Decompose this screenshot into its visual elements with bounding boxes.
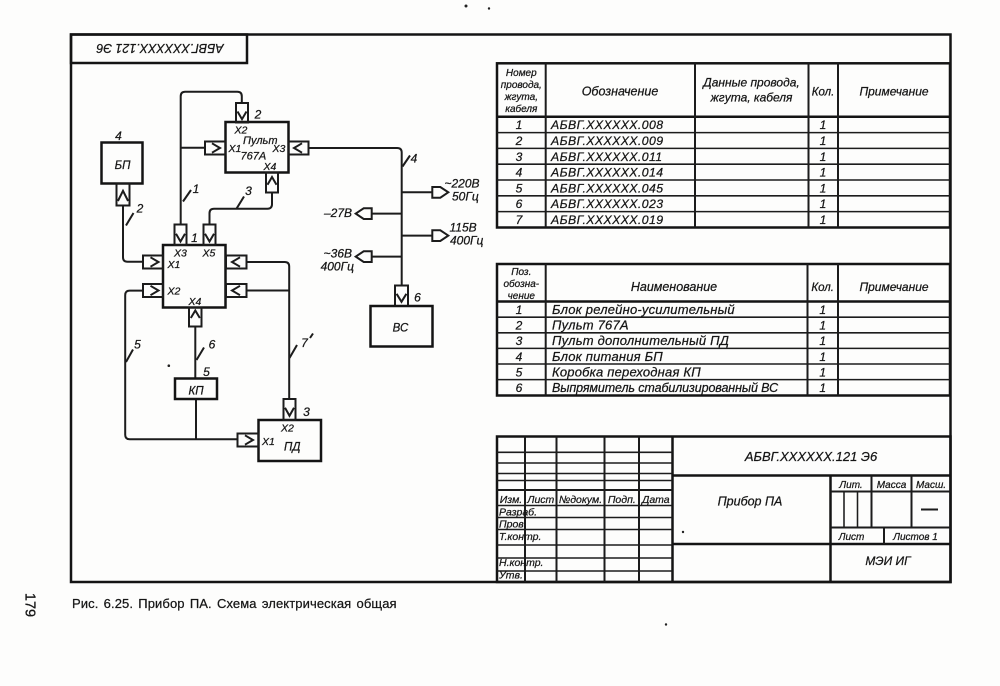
svg-text:6: 6 — [516, 381, 523, 395]
wire table row 4 — [516, 166, 827, 180]
parts table row 4 — [516, 349, 826, 364]
svg-text:4: 4 — [411, 152, 418, 166]
wire label 1 — [183, 182, 199, 202]
svg-text:5: 5 — [134, 338, 141, 352]
svg-text:Т.контр.: Т.контр. — [499, 531, 541, 543]
wire label 3 — [237, 184, 253, 209]
parts table (Поз. обозначение) — [497, 264, 950, 396]
wire from КП to wire 5 — [195, 399, 197, 439]
svg-text:Разраб.: Разраб. — [499, 507, 537, 519]
wire table (Номер провода) — [497, 63, 950, 227]
svg-text:Утв.: Утв. — [498, 570, 523, 582]
svg-text:X4: X4 — [263, 161, 277, 173]
svg-text:400Гц: 400Гц — [321, 260, 355, 274]
svg-text:Коробка переходная КП: Коробка переходная КП — [552, 364, 701, 379]
connector X2 of ПД — [284, 399, 296, 420]
svg-text:1: 1 — [819, 303, 826, 317]
svg-text:3: 3 — [516, 150, 523, 164]
svg-text:Рис. 6.25. Прибор ПА. Схема эл: Рис. 6.25. Прибор ПА. Схема электрическа… — [72, 596, 397, 611]
external arrow ~36В 400Гц — [321, 247, 372, 274]
svg-text:4: 4 — [516, 166, 523, 180]
svg-text:Кол.: Кол. — [812, 87, 835, 99]
connector X2 of Пульт — [236, 103, 248, 123]
svg-text:115В: 115В — [450, 221, 477, 235]
drawing frame — [71, 35, 951, 583]
title block left grid columns — [525, 437, 673, 583]
svg-text:179: 179 — [22, 593, 38, 617]
parts table row 3 — [516, 333, 826, 348]
connector X1 of Пульт — [205, 142, 226, 155]
svg-text:АБВГ.XXXXXX.009: АБВГ.XXXXXX.009 — [550, 134, 663, 148]
wire label 4 — [403, 152, 418, 167]
svg-text:Масш.: Масш. — [916, 480, 946, 491]
svg-text:Пров.: Пров. — [499, 519, 527, 531]
connector X3 of central block — [175, 225, 187, 246]
svg-text:50Гц: 50Гц — [452, 190, 479, 204]
svg-text:1: 1 — [819, 365, 826, 379]
svg-text:Кол.: Кол. — [811, 282, 834, 294]
svg-text:5: 5 — [516, 181, 523, 195]
svg-text:Пульт 767А: Пульт 767А — [552, 318, 629, 333]
svg-text:Лит.: Лит. — [838, 480, 862, 491]
svg-text:X1: X1 — [167, 259, 181, 271]
connector X4 of central block — [189, 308, 202, 327]
tap wire to 115V — [402, 235, 433, 237]
svg-text:6: 6 — [209, 338, 216, 352]
svg-text:жгута,: жгута, — [504, 92, 538, 103]
svg-text:–27В: –27В — [323, 206, 352, 220]
svg-text:АБВГ.XXXXXX.023: АБВГ.XXXXXX.023 — [550, 197, 663, 211]
wire Пульт X1 to wire 1 — [181, 147, 205, 149]
svg-text:жгута, кабеля: жгута, кабеля — [710, 91, 794, 105]
wire label 2 — [126, 202, 144, 226]
block relay-amplifier unit (pos 1) — [163, 245, 226, 308]
wire table row 2 — [515, 134, 827, 148]
svg-text:3: 3 — [303, 405, 310, 419]
connector X3 of Пульт — [289, 142, 309, 155]
svg-text:АБВГ.XXXXXX.121 Э6: АБВГ.XXXXXX.121 Э6 — [96, 41, 224, 55]
svg-text:Масса: Масса — [877, 480, 907, 491]
right connector 2 of central block — [226, 284, 247, 297]
svg-text:X4: X4 — [188, 296, 202, 308]
connector X4 of Пульт — [266, 173, 278, 193]
svg-text:1: 1 — [819, 350, 826, 364]
wire 6 (X4 to КП) — [194, 327, 196, 379]
svg-text:АБВГ.XXXXXX.008: АБВГ.XXXXXX.008 — [550, 118, 663, 132]
svg-text:Номер: Номер — [506, 68, 537, 79]
svg-text:2: 2 — [515, 134, 523, 148]
svg-text:1: 1 — [191, 231, 198, 245]
right connector 1 of central block — [226, 256, 247, 269]
svg-text:№докум.: №докум. — [559, 494, 602, 506]
block ВС (pos 6) — [371, 306, 433, 347]
connector under БП — [117, 184, 130, 206]
svg-text:Подп.: Подп. — [608, 494, 636, 506]
parts table row 5 — [516, 364, 826, 379]
wire label 7 — [290, 334, 314, 359]
svg-text:1: 1 — [820, 166, 827, 180]
svg-text:Наименование: Наименование — [631, 280, 717, 294]
wire table row 7 — [516, 213, 827, 227]
document code box (rotated 180) — [71, 35, 247, 64]
svg-text:АБВГ.XXXXXX.011: АБВГ.XXXXXX.011 — [550, 150, 663, 164]
tap wire to ~36V — [372, 256, 402, 258]
svg-text:3: 3 — [516, 334, 523, 348]
title block name cell (Прибор ПА) — [673, 476, 951, 583]
title block signature labels — [498, 507, 543, 582]
svg-text:Лист: Лист — [838, 532, 865, 543]
external arrow -27В — [323, 206, 372, 220]
svg-text:6: 6 — [414, 291, 421, 305]
svg-text:5: 5 — [516, 365, 523, 379]
svg-text:1: 1 — [193, 182, 200, 196]
svg-text:X3: X3 — [272, 143, 286, 155]
block КП (pos 5) — [175, 379, 217, 400]
svg-text:ПД: ПД — [284, 442, 300, 454]
connector X2 of central block — [143, 284, 163, 297]
scan speck top 1 — [465, 5, 468, 8]
svg-text:3: 3 — [245, 184, 252, 198]
svg-text:400Гц: 400Гц — [450, 234, 484, 248]
svg-text:1: 1 — [516, 118, 523, 132]
wire table row 3 — [516, 150, 827, 164]
block ПД (pos 3) — [259, 420, 322, 461]
svg-text:ВС: ВС — [393, 323, 409, 335]
svg-text:АБВГ.XXXXXX.045: АБВГ.XXXXXX.045 — [550, 181, 663, 195]
svg-text:БП: БП — [115, 160, 131, 172]
svg-text:Листов 1: Листов 1 — [892, 532, 938, 543]
connector X1 of central block — [143, 256, 163, 269]
wire 1 (Пульт X2 loop to central X3) — [181, 92, 242, 225]
title block document code cell — [673, 449, 951, 476]
svg-text:Лист: Лист — [526, 494, 554, 506]
svg-text:Выпрямитель стабилизированный: Выпрямитель стабилизированный ВС — [552, 381, 779, 395]
svg-text:Обозначение: Обозначение — [582, 85, 659, 99]
svg-text:Дата: Дата — [641, 494, 670, 506]
svg-text:1: 1 — [516, 303, 523, 317]
svg-text:X3: X3 — [173, 248, 187, 260]
external arrow 115В 400Гц — [432, 221, 483, 248]
svg-text:6: 6 — [516, 197, 523, 211]
parts table row 6 — [516, 381, 826, 395]
scan speck in title block — [682, 531, 684, 533]
svg-text:5: 5 — [203, 365, 210, 379]
wire 2 — [123, 206, 143, 262]
svg-text:Изм.: Изм. — [500, 494, 522, 506]
svg-text:Блок релейно-усилительный: Блок релейно-усилительный — [552, 302, 735, 317]
svg-text:767А: 767А — [241, 151, 267, 163]
svg-text:4: 4 — [115, 129, 122, 143]
tap wire to -27V — [372, 213, 402, 215]
svg-text:Н.контр.: Н.контр. — [499, 557, 543, 569]
svg-text:1: 1 — [820, 150, 827, 164]
title block Лист / Листов row — [838, 528, 938, 545]
wire 5 (central X2 to ПД X1) — [125, 291, 237, 440]
title block header row labels — [500, 494, 670, 506]
svg-text:чение: чение — [508, 291, 536, 302]
wire table row 6 — [516, 197, 827, 211]
svg-text:1: 1 — [820, 197, 827, 211]
block Пульт 767А (pos 2) — [226, 122, 289, 173]
svg-text:МЭИ ИГ: МЭИ ИГ — [865, 554, 912, 568]
svg-text:Поз.: Поз. — [511, 267, 531, 278]
svg-text:7: 7 — [516, 213, 524, 227]
wire label 6 — [197, 338, 216, 361]
svg-text:1: 1 — [820, 118, 827, 132]
parts table row 1 — [516, 302, 826, 317]
connector X5 of central block — [204, 225, 216, 246]
svg-text:провода,: провода, — [501, 80, 542, 91]
svg-text:Пульт дополнительный ПД: Пульт дополнительный ПД — [552, 333, 729, 348]
svg-text:2: 2 — [254, 108, 262, 122]
wire table row 5 — [516, 181, 827, 195]
svg-text:АБВГ.XXXXXX.019: АБВГ.XXXXXX.019 — [550, 213, 663, 227]
wire 4 (Пульт X3 to ВС with power taps) — [309, 148, 402, 286]
svg-text:2: 2 — [515, 319, 523, 333]
svg-text:1: 1 — [820, 181, 827, 195]
wire 7 (right connectors to ПД X2) — [247, 262, 290, 399]
wire 3 (Пульт X4 to central X5) — [210, 193, 273, 225]
svg-text:обозна-: обозна- — [503, 278, 539, 290]
tap wire to ~220V — [402, 191, 433, 193]
wire label 5 — [126, 338, 141, 363]
svg-text:1: 1 — [819, 334, 826, 348]
svg-text:X5: X5 — [202, 248, 216, 260]
scan speck below frame — [665, 623, 667, 625]
svg-text:~36В: ~36В — [324, 247, 352, 261]
svg-text:7: 7 — [301, 336, 309, 350]
title block — [497, 437, 951, 583]
svg-text:X1: X1 — [228, 143, 242, 155]
svg-text:Примечание: Примечание — [859, 85, 928, 99]
connector X1 of ПД — [238, 434, 259, 447]
svg-text:2: 2 — [136, 202, 144, 216]
title block left grid rows — [497, 452, 673, 571]
scan speck top 2 — [488, 7, 490, 9]
wire from right connector 2 — [247, 290, 290, 292]
svg-text:Данные провода,: Данные провода, — [701, 76, 799, 90]
external arrow ~220В 50Гц — [432, 177, 479, 204]
connector of ВС — [395, 286, 408, 307]
svg-text:1: 1 — [820, 134, 827, 148]
svg-text:X2: X2 — [280, 423, 294, 435]
svg-text:Блок питания БП: Блок питания БП — [552, 349, 663, 364]
svg-text:4: 4 — [516, 350, 523, 364]
svg-text:X2: X2 — [167, 286, 181, 298]
block БП (pos 4) — [102, 143, 143, 184]
svg-text:1: 1 — [820, 213, 827, 227]
wire table row 1 — [516, 118, 827, 132]
svg-text:кабеля: кабеля — [505, 103, 538, 115]
svg-text:Примечание: Примечание — [859, 280, 928, 294]
svg-text:X1: X1 — [261, 436, 275, 448]
svg-text:~220В: ~220В — [445, 177, 480, 191]
svg-text:АБВГ.XXXXXX.121 Э6: АБВГ.XXXXXX.121 Э6 — [744, 449, 878, 464]
svg-text:АБВГ.XXXXXX.014: АБВГ.XXXXXX.014 — [550, 166, 663, 180]
scan speck near wire 6 — [168, 364, 171, 367]
parts table row 2 — [515, 318, 826, 333]
svg-text:КП: КП — [188, 386, 204, 398]
svg-text:1: 1 — [819, 319, 826, 333]
svg-text:Прибор ПА: Прибор ПА — [718, 495, 783, 509]
svg-text:1: 1 — [819, 381, 826, 395]
title block Лит Масса Масш cells — [831, 476, 951, 528]
